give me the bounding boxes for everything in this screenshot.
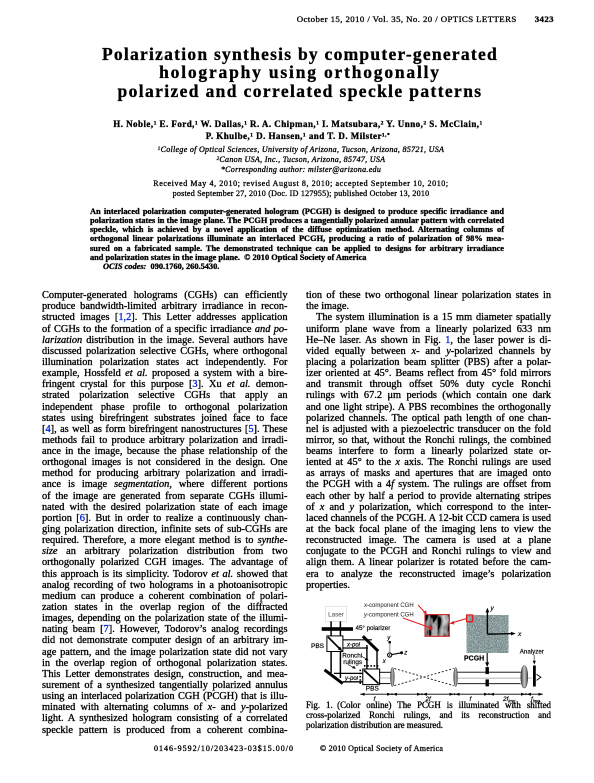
- svg-text:y-pol: y-pol: [344, 676, 359, 682]
- wire laser beam vertical pair: [331, 621, 340, 637]
- footer fee code line: [154, 744, 443, 753]
- svg-text:x-component CGH: x-component CGH: [363, 603, 414, 609]
- Ronchi ruling G2 vertical dotted: [359, 670, 361, 685]
- svg-text:f: f: [470, 696, 473, 703]
- red leader x-component to inset corner: [418, 605, 427, 615]
- PCGH speckle pattern: [467, 615, 509, 653]
- leader arrow to G1: [362, 657, 369, 661]
- label Ronchi rulings: [342, 653, 362, 666]
- title: [3, 45, 594, 100]
- mirror M1 top fold: [363, 636, 378, 651]
- red zoom square on PCGH: [467, 615, 473, 622]
- mirror M2 bottom fold: [325, 670, 343, 684]
- svg-text:PBS: PBS: [366, 686, 380, 693]
- laser box: [326, 607, 347, 621]
- svg-text:PCGH: PCGH: [464, 655, 484, 662]
- imaging lens L3: [521, 666, 528, 688]
- svg-text:y: y: [490, 605, 495, 612]
- figure 1 caption: [306, 701, 551, 730]
- wire y-pol beam vertical pair from PBS1: [331, 651, 340, 678]
- svg-text:x: x: [517, 631, 522, 638]
- axes xyz: [382, 636, 408, 665]
- dimension labels f 2f f 2fimg fimg: [374, 696, 541, 704]
- wire beam L2 to imaging lens: [458, 672, 532, 684]
- node y-pol label: [344, 674, 361, 682]
- running head: [297, 14, 554, 24]
- svg-text:f: f: [374, 696, 377, 703]
- inset CGH speckle image: [425, 615, 449, 637]
- received/published dates: [4, 179, 594, 198]
- svg-text:y: y: [386, 636, 391, 642]
- camera converging beam: [537, 674, 541, 680]
- node x-pol label: [346, 641, 363, 649]
- leader arrow to G2: [348, 665, 356, 669]
- svg-text:2f: 2f: [425, 696, 433, 703]
- beamsplitter PBS1: [327, 636, 342, 651]
- svg-text:fimg: fimg: [531, 696, 540, 704]
- authors: [1, 119, 594, 142]
- wire x-pol beam horizontal pair: [342, 640, 372, 648]
- wire connector PCGH pattern to element: [485, 653, 489, 667]
- axes on PCGH x y: [486, 605, 523, 638]
- red arrow square to inset: [450, 619, 467, 625]
- svg-text:rulings: rulings: [343, 659, 362, 666]
- svg-text:Analyzer: Analyzer: [520, 649, 544, 656]
- leader Analyzer to bar: [533, 655, 536, 665]
- red leader y-component to red dot: [403, 618, 433, 630]
- svg-text:45° polarizer: 45° polarizer: [356, 625, 391, 632]
- lens L2: [454, 668, 458, 687]
- svg-text:y-component CGH: y-component CGH: [363, 612, 414, 618]
- svg-text:Laser: Laser: [328, 612, 344, 619]
- beamsplitter PBS2: [363, 670, 379, 685]
- svg-text:PBS: PBS: [311, 643, 325, 650]
- wire beam PBS2 to L1: [379, 672, 390, 683]
- analyzer bar: [533, 666, 536, 687]
- abstract: [90, 207, 504, 272]
- affiliations: [4, 145, 594, 175]
- svg-text:z: z: [403, 651, 407, 657]
- wire dashed crossing beams L1 to L2: [394, 669, 453, 686]
- svg-text:2fimg: 2fimg: [502, 696, 516, 704]
- wire x-pol beam vertical pair into PBS2: [367, 645, 377, 670]
- PCGH element on axis: [486, 667, 489, 686]
- Ronchi ruling G1 horizontal dotted: [364, 665, 379, 667]
- left column body text: [42, 290, 288, 736]
- svg-text:x-pol: x-pol: [346, 643, 361, 649]
- dimension line with arrows: [360, 693, 543, 695]
- svg-text:x: x: [382, 659, 387, 665]
- right column body text: [306, 290, 551, 591]
- polarizer P1 45deg: [322, 627, 353, 631]
- wire y-pol beam horizontal pair into PBS2: [334, 673, 363, 681]
- lens L1: [391, 668, 395, 687]
